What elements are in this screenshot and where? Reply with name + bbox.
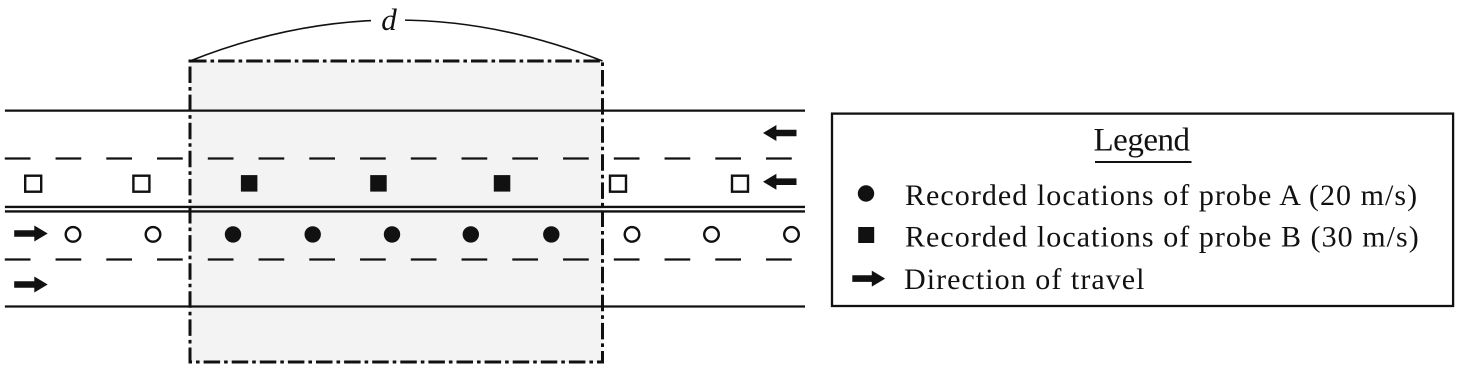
svg-text:Direction of travel: Direction of travel bbox=[904, 263, 1146, 296]
svg-text:d: d bbox=[381, 2, 397, 37]
svg-text:Legend: Legend bbox=[1094, 123, 1191, 159]
svg-text:Recorded locations of probe B: Recorded locations of probe B (30 m/s) bbox=[905, 220, 1420, 253]
svg-text:Recorded locations of probe A: Recorded locations of probe A (20 m/s) bbox=[905, 179, 1418, 212]
